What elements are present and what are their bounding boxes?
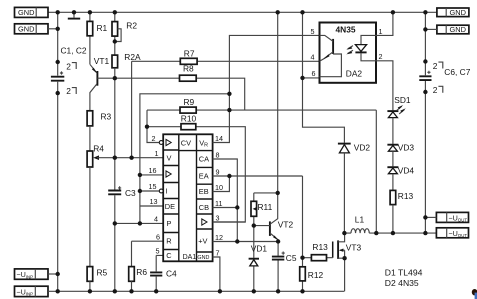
diode VD4 xyxy=(387,166,414,176)
node bracket 2 upper C1C2 xyxy=(66,61,76,71)
svg-text:R2A: R2A xyxy=(124,52,141,62)
connector -Uout 1 xyxy=(436,212,468,222)
connector -Uout 2 xyxy=(436,228,468,238)
svg-text:VD1: VD1 xyxy=(251,244,268,254)
svg-text:DA1: DA1 xyxy=(183,254,197,261)
svg-text:R11: R11 xyxy=(258,202,273,212)
transistor VT3 mosfet xyxy=(333,233,362,291)
resistor R4 trimmer xyxy=(87,143,104,167)
svg-text:L1: L1 xyxy=(355,215,365,225)
svg-text:10: 10 xyxy=(215,183,223,192)
svg-text:6: 6 xyxy=(156,233,160,242)
wire R6 to rail xyxy=(131,281,133,291)
svg-text:R10: R10 xyxy=(181,114,197,124)
diode VD3 xyxy=(387,143,414,153)
wire pin16 xyxy=(140,174,163,176)
svg-text:R2: R2 xyxy=(126,21,137,31)
wire VT1 base to node xyxy=(97,77,114,79)
svg-text:7: 7 xyxy=(216,248,220,257)
wire pin12 supply xyxy=(213,241,279,243)
wire output line xyxy=(344,232,436,234)
svg-text:CA: CA xyxy=(199,155,209,164)
wire R9 left to pin2 xyxy=(147,110,159,142)
diode VD1 xyxy=(249,244,268,292)
svg-text:R9: R9 xyxy=(184,97,195,107)
wire R13 to output line xyxy=(392,205,394,234)
svg-text:GND: GND xyxy=(18,8,34,17)
resistor R6 xyxy=(129,267,148,282)
resistor R7 xyxy=(132,49,320,65)
watermark mark bottom right xyxy=(472,289,477,299)
wire emitter drive down xyxy=(302,176,304,291)
svg-text:2: 2 xyxy=(66,61,71,71)
svg-text:GND: GND xyxy=(450,25,466,34)
connector GND left 1 xyxy=(15,7,49,17)
wire pin15 xyxy=(140,190,159,192)
svg-text:14: 14 xyxy=(215,134,223,143)
svg-text:R8: R8 xyxy=(183,64,194,74)
resistor R1 xyxy=(87,12,107,64)
wire opto pin2 to SD1 chain xyxy=(376,61,393,111)
wire left bus vertical xyxy=(57,12,59,75)
capacitor C6,C7 column xyxy=(424,12,426,233)
svg-text:1: 1 xyxy=(155,149,159,158)
capacitor C1,C2 xyxy=(51,46,87,81)
capacitor C4 xyxy=(150,269,177,279)
wire VD4 to R13 xyxy=(392,174,394,191)
svg-text:GND: GND xyxy=(450,8,466,17)
node bracket 2 lower C1C2 xyxy=(66,86,76,96)
resistor R13 load xyxy=(390,190,413,204)
wire Vref line to pin16 xyxy=(140,94,230,224)
svg-text:R4: R4 xyxy=(93,143,104,153)
resistor R13 gate xyxy=(303,242,333,261)
svg-text:V: V xyxy=(167,153,172,162)
svg-text:CV: CV xyxy=(181,138,191,147)
wire R7 left feed vertical xyxy=(131,61,133,157)
svg-text:16: 16 xyxy=(149,166,157,175)
svg-text:R3: R3 xyxy=(101,112,112,122)
svg-text:R7: R7 xyxy=(184,49,195,59)
wire pin9 pin10 common xyxy=(213,176,303,192)
wire R4 wiper to DA1 pin1 xyxy=(97,157,163,159)
svg-text:GND: GND xyxy=(18,25,34,34)
svg-text:C5: C5 xyxy=(286,253,297,263)
wire pin13 xyxy=(140,205,163,207)
svg-text:R1: R1 xyxy=(97,23,108,33)
capacitor C5 xyxy=(272,242,297,292)
IC DA1 TL494 xyxy=(159,134,212,261)
wire -Uinp1 to left bus xyxy=(48,273,58,275)
svg-text:2: 2 xyxy=(433,61,438,71)
svg-text:EB: EB xyxy=(199,187,209,196)
node bracket 2 upper C6C7 xyxy=(433,61,443,71)
wire top rail to VD2 and opto pin6 xyxy=(303,12,345,143)
svg-text:R12: R12 xyxy=(308,270,324,280)
svg-text:VD4: VD4 xyxy=(398,166,415,176)
transistor VT1 xyxy=(90,56,110,111)
svg-text:DE: DE xyxy=(165,202,175,211)
wire SD1 to VD3 xyxy=(392,118,394,144)
svg-text:VT3: VT3 xyxy=(346,243,362,253)
resistor R10 xyxy=(147,114,245,223)
svg-text:R13: R13 xyxy=(398,191,414,201)
svg-text:2: 2 xyxy=(433,85,438,95)
svg-text:C4: C4 xyxy=(166,269,177,279)
wire R2A column down through C3 xyxy=(114,68,116,190)
resistor R2A xyxy=(112,52,141,68)
svg-text:GND: GND xyxy=(197,255,209,261)
svg-text:13: 13 xyxy=(150,197,158,206)
node bracket 2 lower C6C7 xyxy=(433,85,443,95)
wire VT2 collector to top rail xyxy=(277,12,279,193)
svg-text:5: 5 xyxy=(156,247,160,256)
svg-text:8: 8 xyxy=(216,150,220,159)
svg-text:1: 1 xyxy=(379,27,383,36)
svg-text:VD3: VD3 xyxy=(398,143,415,153)
svg-text:VT1: VT1 xyxy=(94,56,110,66)
wire top supply rail xyxy=(48,11,437,13)
resistor R11 xyxy=(251,193,278,258)
wire opto pin6 stub xyxy=(303,77,320,79)
svg-text:11: 11 xyxy=(215,199,222,208)
svg-text:15: 15 xyxy=(149,182,157,191)
transistor VT2 xyxy=(254,193,294,242)
resistor R5 xyxy=(87,267,107,282)
svg-text:CB: CB xyxy=(199,203,209,212)
diode VD2 xyxy=(338,143,371,234)
svg-text:R13: R13 xyxy=(312,242,328,252)
resistor R8 xyxy=(115,64,245,111)
optocoupler DA2 4N35 xyxy=(320,23,377,83)
wire opto pin1 to rail xyxy=(376,12,393,35)
svg-text:6: 6 xyxy=(312,69,316,78)
svg-text:D2 4N35: D2 4N35 xyxy=(385,278,419,288)
svg-text:C: C xyxy=(166,251,172,260)
led SD1 xyxy=(387,95,411,118)
svg-text:C3: C3 xyxy=(125,188,136,198)
wire bottom ground rail xyxy=(48,290,344,292)
wire pin8 down xyxy=(213,159,238,242)
wire R9 bus down to output line xyxy=(375,110,377,233)
inductor L1 xyxy=(351,215,369,234)
svg-text:D1 TL494: D1 TL494 xyxy=(385,268,423,278)
svg-text:DA2: DA2 xyxy=(346,69,363,79)
wire R3 to R4 xyxy=(89,126,91,151)
svg-text:SD1: SD1 xyxy=(394,95,411,105)
svg-text:9: 9 xyxy=(216,167,220,176)
resistor R9 xyxy=(147,97,376,113)
svg-text:R6: R6 xyxy=(136,267,147,277)
svg-text:VT2: VT2 xyxy=(278,220,294,230)
connector -Uinp 2 xyxy=(15,286,49,296)
wire R5 to rail xyxy=(89,281,91,291)
wire VD3 to VD4 xyxy=(392,151,394,166)
svg-text:EA: EA xyxy=(199,172,209,181)
wire pin7 gnd xyxy=(213,257,220,291)
svg-text:3: 3 xyxy=(216,213,220,222)
wire pin11 xyxy=(213,207,238,209)
wire -Uout1 xyxy=(425,216,436,218)
svg-text:VD2: VD2 xyxy=(354,143,371,153)
wire R4 to R5 xyxy=(89,167,91,267)
wire C3 to bottom rail xyxy=(114,195,116,291)
resistor R3 xyxy=(87,111,111,126)
connector GND left 2 xyxy=(15,24,49,34)
svg-text:+V: +V xyxy=(198,236,207,245)
ground symbol xyxy=(73,12,75,17)
connector -Uinp 1 xyxy=(15,269,49,279)
svg-text:R: R xyxy=(166,237,171,246)
svg-text:P: P xyxy=(167,219,172,228)
wire pin3 feedback xyxy=(213,221,246,223)
svg-text:4: 4 xyxy=(311,53,315,62)
svg-text:12: 12 xyxy=(215,233,223,242)
svg-text:2: 2 xyxy=(152,134,156,143)
capacitor C3 xyxy=(108,186,136,198)
svg-text:4: 4 xyxy=(154,215,158,224)
svg-text:2: 2 xyxy=(379,52,383,61)
connector GND right 2 xyxy=(437,25,469,34)
connector GND right 1 xyxy=(437,8,469,17)
capacitor C6,C7 xyxy=(419,67,470,80)
svg-text:4N35: 4N35 xyxy=(336,25,356,35)
svg-text:2: 2 xyxy=(66,86,71,96)
svg-text:R5: R5 xyxy=(97,268,108,278)
resistor R12 xyxy=(300,267,324,281)
wire GND right 2 xyxy=(425,28,437,30)
wire C4 to rail xyxy=(155,277,157,292)
resistor R2 xyxy=(112,12,137,55)
wire pin5 to C4 xyxy=(156,255,163,271)
svg-text:5: 5 xyxy=(311,27,315,36)
svg-text:C1, C2: C1, C2 xyxy=(61,46,87,56)
svg-text:C6, C7: C6, C7 xyxy=(444,67,470,77)
svg-text:I: I xyxy=(166,187,168,196)
wire GND2 to left bus xyxy=(48,28,58,30)
wire pin14 to Vref bus and opto pin5 xyxy=(213,35,320,142)
wire pin6 to R6 xyxy=(132,241,164,266)
wire pin4 deadtime xyxy=(115,222,163,224)
